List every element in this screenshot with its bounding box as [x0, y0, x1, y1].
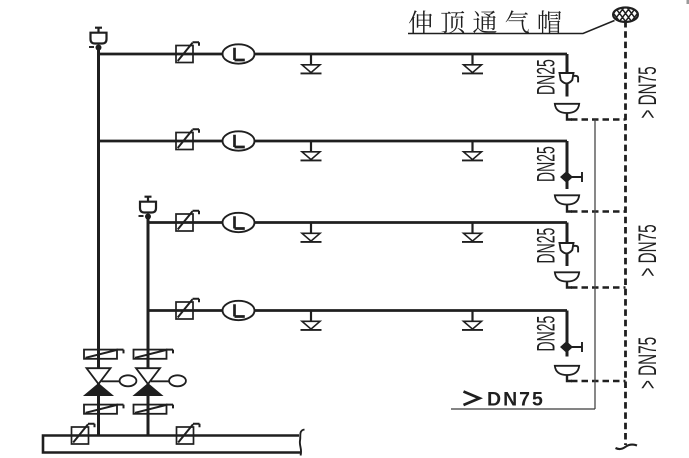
DN75 leader underline — [451, 408, 595, 410]
automatic air vent on riser 1 — [89, 28, 107, 51]
drop pipe to fixture, floor 4 — [566, 311, 569, 357]
drop pipe to fixture, floor 2 — [566, 141, 569, 189]
trap funnel, floor 3 — [555, 272, 579, 281]
dashed waste connector, floor 1 — [571, 118, 626, 120]
trap outlet stem, floor 3 — [567, 281, 572, 288]
stop/check valve, riser 2 — [135, 368, 186, 395]
svg-text:DN25: DN25 — [534, 59, 561, 95]
svg-text:> DN75: > DN75 — [634, 337, 662, 389]
valve on header right — [177, 424, 200, 444]
svg-text:> DN75: > DN75 — [634, 224, 662, 276]
tap on drop, floor 1 — [560, 73, 579, 83]
drop pipe to fixture, floor 1 — [566, 54, 569, 97]
leader line to vent cap — [408, 21, 615, 34]
svg-text:DN75: DN75 — [487, 389, 545, 411]
trap outlet stem, floor 4 — [567, 375, 572, 382]
vent cap (hatched) — [613, 8, 638, 22]
riser 2 (supply standpipe) — [147, 216, 150, 435]
water meter L, floor 4 — [223, 301, 255, 320]
shut-off valve, floor 1 — [176, 42, 199, 62]
plug valve on drop, floor 4 — [562, 342, 583, 352]
dashed waste connector, floor 2 — [571, 210, 626, 212]
bottom header pipe (double line) — [43, 436, 301, 453]
svg-text:> DN75: > DN75 — [634, 66, 662, 118]
faucet B, floor 4 — [462, 311, 483, 330]
faucet A, floor 2 — [301, 141, 322, 160]
faucet A, floor 3 — [301, 223, 322, 242]
drain collector line — [594, 120, 596, 410]
drop pipe to fixture, floor 3 — [566, 223, 569, 267]
stack break squiggle — [616, 445, 638, 450]
faucet B, floor 3 — [462, 223, 483, 242]
stop/check valve, riser 1 — [85, 368, 136, 395]
faucet B, floor 1 — [462, 54, 483, 73]
trap outlet stem, floor 2 — [567, 204, 572, 212]
faucet A, floor 1 — [301, 54, 322, 73]
svg-text:DN25: DN25 — [534, 146, 561, 182]
shut-off valve, floor 2 — [176, 129, 199, 149]
shut-off valve, floor 3 — [176, 211, 199, 231]
gate valve upper, riser 1 — [84, 350, 124, 359]
branch pipe floor 3 — [148, 221, 567, 224]
label > DN75 (horizontal) — [464, 392, 480, 406]
svg-text:DN25: DN25 — [534, 316, 561, 352]
faucet B, floor 2 — [462, 141, 483, 160]
riser 1 (supply standpipe) — [97, 47, 100, 435]
svg-text:DN25: DN25 — [534, 228, 561, 264]
valve on header left — [72, 424, 95, 444]
branch pipe floor 4 — [148, 309, 567, 312]
trap outlet stem, floor 1 — [567, 113, 572, 120]
branch pipe floor 1 — [99, 53, 568, 56]
tap on drop, floor 3 — [560, 243, 579, 253]
trap funnel, floor 4 — [555, 366, 579, 375]
trap funnel, floor 2 — [555, 195, 579, 204]
water meter L, floor 3 — [223, 213, 255, 232]
trap funnel, floor 1 — [555, 104, 579, 113]
plug valve on drop, floor 2 — [562, 172, 583, 182]
automatic air vent on riser 2 — [139, 197, 157, 220]
branch pipe floor 2 — [99, 140, 568, 143]
water meter L, floor 2 — [223, 131, 255, 150]
gate valve lower, riser 2 — [134, 405, 174, 414]
dashed waste connector, floor 4 — [571, 380, 626, 382]
shut-off valve, floor 4 — [176, 299, 199, 319]
faucet A, floor 4 — [301, 311, 322, 330]
label 伸顶通气帽 — [409, 10, 561, 33]
vent stack (dashed) — [624, 21, 627, 445]
dashed waste connector, floor 3 — [571, 286, 626, 288]
scan artifact top right corner — [687, 0, 689, 4]
gate valve lower, riser 1 — [84, 405, 124, 414]
water meter L, floor 1 — [223, 44, 255, 63]
gate valve upper, riser 2 — [134, 350, 174, 359]
header break mark — [300, 430, 305, 456]
